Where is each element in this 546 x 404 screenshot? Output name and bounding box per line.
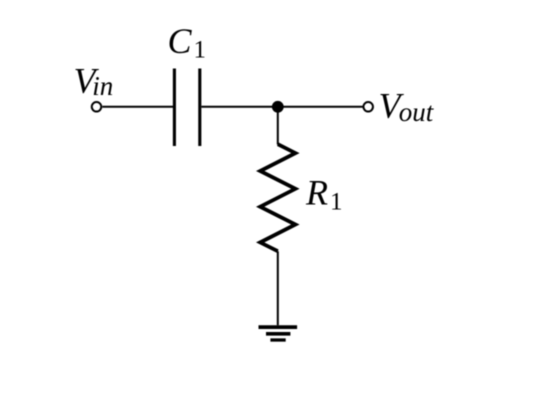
- svg-text:out: out: [399, 97, 435, 127]
- svg-text:1: 1: [330, 188, 343, 215]
- wire junction to Vout: [278, 106, 363, 108]
- label Vout: [379, 86, 435, 128]
- svg-text:in: in: [92, 71, 113, 101]
- resistor R1: [260, 144, 295, 251]
- junction node: [272, 101, 284, 113]
- node Vout terminal: [363, 102, 373, 112]
- svg-text:R: R: [305, 173, 328, 213]
- wire junction to R1: [277, 107, 279, 145]
- svg-text:C: C: [168, 21, 193, 61]
- node Vin terminal: [92, 102, 102, 112]
- label R1: [305, 173, 343, 216]
- wire R1 to ground: [277, 251, 279, 325]
- label C1: [168, 21, 207, 64]
- wire Vin to C1: [102, 106, 173, 108]
- label Vin: [74, 60, 114, 101]
- capacitor C1: [174, 69, 199, 147]
- svg-text:1: 1: [194, 37, 207, 64]
- wire C1 to junction: [201, 106, 278, 108]
- ground: [259, 327, 298, 340]
